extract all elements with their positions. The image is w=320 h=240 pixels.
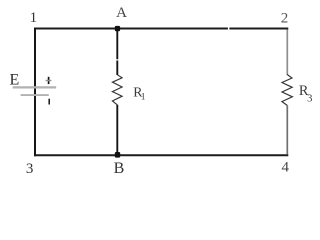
svg-text:E: E <box>10 71 20 88</box>
battery plus sign <box>46 77 52 84</box>
node B junction dot <box>115 152 120 158</box>
battery minus tick <box>48 99 50 105</box>
wire middle branch upper (A to R1) <box>116 29 118 76</box>
resistor R1 label <box>133 84 145 102</box>
wire top (node 1 to node 2 via A) <box>34 28 228 30</box>
wire bottom (node 3 to node 4 via B) <box>34 154 288 156</box>
svg-text:B: B <box>114 160 125 177</box>
wire middle branch lower (R1 to B) <box>116 105 118 155</box>
svg-text:3: 3 <box>307 94 312 105</box>
wire top right segment after small gap <box>229 28 288 30</box>
svg-text:1: 1 <box>30 10 38 26</box>
resistor R3 zigzag <box>282 75 293 106</box>
wire left branch (through battery E) <box>34 28 36 157</box>
svg-text:3: 3 <box>26 161 34 177</box>
wire right branch upper <box>286 29 288 75</box>
resistor R1 zigzag <box>112 75 122 105</box>
battery E top plate <box>13 86 57 88</box>
wire middle faint break artifact <box>116 59 119 61</box>
svg-text:1: 1 <box>141 92 146 102</box>
node A junction dot <box>115 26 120 31</box>
resistor R3 label <box>299 83 312 104</box>
wire right branch lower <box>286 105 288 154</box>
svg-text:2: 2 <box>281 10 289 26</box>
svg-text:4: 4 <box>282 160 290 176</box>
svg-text:A: A <box>116 5 127 21</box>
battery E bottom plate <box>21 94 49 96</box>
